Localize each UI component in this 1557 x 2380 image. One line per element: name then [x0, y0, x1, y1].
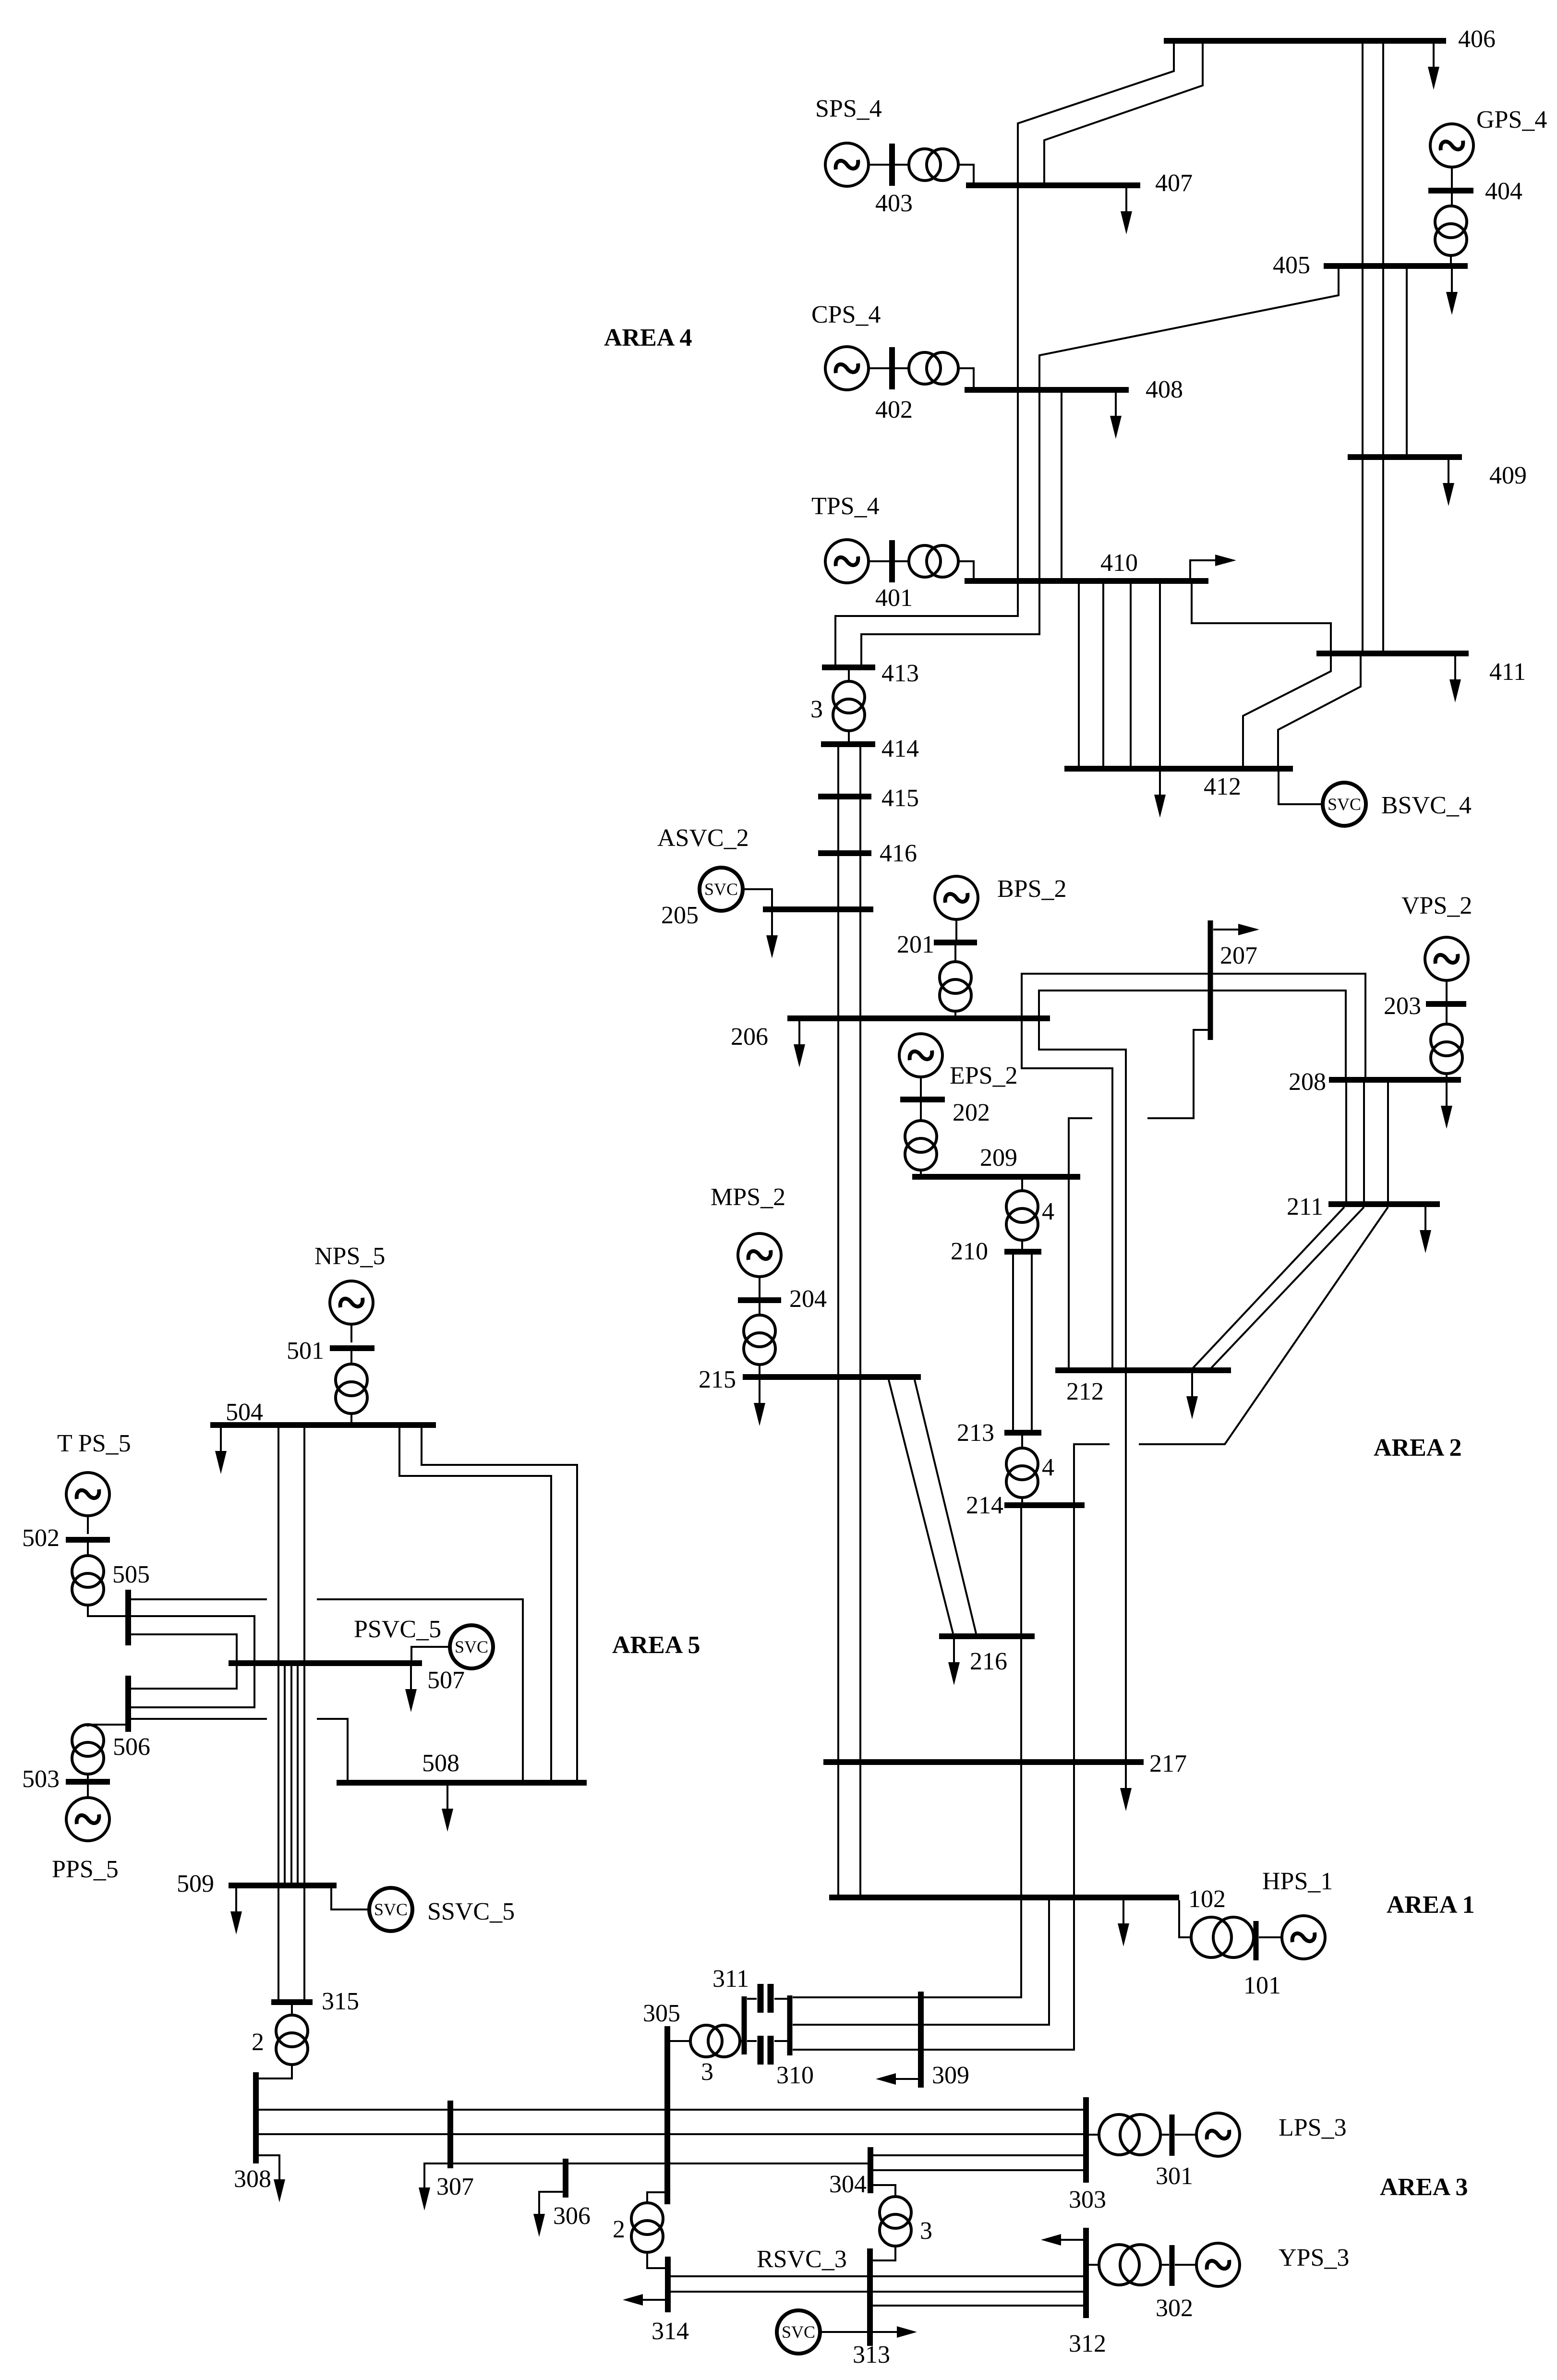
wire 410-412 circuit 3 — [1130, 584, 1132, 767]
export arrow bus 207 — [1213, 924, 1259, 935]
bus 412 — [1064, 766, 1293, 772]
bus 215 — [743, 1374, 921, 1380]
bus 209 — [912, 1174, 1080, 1180]
wire 504-508 east 1 — [399, 1428, 551, 1780]
svg-text:414: 414 — [881, 735, 919, 762]
load arrow bus 212 — [1186, 1373, 1198, 1419]
svg-text:204: 204 — [789, 1285, 827, 1313]
svg-text:201: 201 — [897, 931, 934, 958]
transformer SPS_4 — [909, 149, 958, 181]
transformer 4 (213-214) — [1006, 1448, 1038, 1498]
wire bus 502 to transformer — [87, 1543, 89, 1556]
svg-text:RSVC_3: RSVC_3 — [757, 2246, 847, 2273]
wire 313-312 row 3 — [873, 2305, 1083, 2307]
svg-text:206: 206 — [731, 1023, 768, 1051]
wire 206-212 — [1022, 1021, 1112, 1368]
wire EPS_2 transformer to bus 209 — [920, 1170, 922, 1174]
bus 310 — [787, 1995, 793, 2055]
load arrow bus 409 — [1443, 460, 1454, 506]
bus 203 — [1426, 1001, 1466, 1007]
svg-text:503: 503 — [22, 1765, 60, 1793]
wire bus 312 to YPS_3 transformer — [1089, 2264, 1099, 2266]
wire transformer 3 to bus 311 — [739, 2040, 742, 2042]
svg-text:GPS_4: GPS_4 — [1476, 106, 1547, 133]
wire transformer 4 to bus 214 — [1021, 1498, 1023, 1502]
wire 505-506 circuit 1 — [131, 1634, 237, 1689]
transformer 3 (304-313) — [880, 2197, 911, 2246]
svg-text:202: 202 — [953, 1099, 990, 1126]
wire VPS_2 transformer to bus 208 — [1446, 1074, 1448, 1078]
bus 507 — [229, 1660, 422, 1666]
bus 406 — [1164, 38, 1446, 44]
generator TPS_4 — [825, 540, 869, 583]
svg-text:408: 408 — [1146, 376, 1183, 403]
svg-text:SVC: SVC — [455, 1637, 488, 1656]
wire 208-211 circuit 3 — [1387, 1083, 1389, 1202]
svg-text:303: 303 — [1069, 2186, 1106, 2213]
svg-text:SSVC_5: SSVC_5 — [427, 1898, 515, 1925]
bus 413 — [822, 664, 875, 670]
wire NPS_5 transformer to bus 504 — [350, 1414, 352, 1422]
wire SPS_4 gen to bus 403 — [869, 164, 889, 166]
wire 505-508 segment 2 — [317, 1599, 523, 1780]
wire 410-412 circuit 2 — [1102, 584, 1104, 767]
svg-text:312: 312 — [1069, 2330, 1106, 2357]
svg-text:308: 308 — [234, 2165, 271, 2193]
bus 409 — [1348, 454, 1462, 460]
wire VPS_2 gen to bus 203 — [1446, 980, 1448, 1001]
load arrow bus 308 — [259, 2155, 285, 2202]
svg-text:301: 301 — [1156, 2163, 1193, 2190]
wire 406-407 circuit 2 — [1044, 41, 1203, 185]
wire bus 302 to YPS_3 gen — [1175, 2264, 1196, 2266]
bus 504 — [210, 1422, 436, 1428]
bus 211 — [1328, 1201, 1440, 1207]
wire CPS_4 transformer to bus 408 — [958, 368, 974, 388]
svg-text:LPS_3: LPS_3 — [1279, 2114, 1347, 2141]
svg-text:TPS_4: TPS_4 — [811, 493, 880, 520]
wire bus 506 to transformer — [88, 1725, 125, 1727]
wire 505-506 circuit 2 — [131, 1616, 254, 1707]
wire 406-405-409-411 line a — [1362, 41, 1364, 653]
bus 414 — [821, 741, 875, 747]
wire 507-509 line 1 — [278, 1666, 279, 1883]
svg-text:4: 4 — [1042, 1454, 1054, 1481]
bus 101 — [1254, 1921, 1259, 1960]
svg-text:311: 311 — [712, 1965, 749, 1993]
svg-text:3: 3 — [701, 2058, 713, 2086]
bus 216 — [939, 1633, 1035, 1639]
load arrow bus 102 — [1118, 1900, 1129, 1946]
svg-text:AREA 5: AREA 5 — [612, 1631, 700, 1659]
bus 102 — [829, 1895, 1179, 1900]
wire bus 305 to transformer 2 — [647, 2192, 664, 2203]
svg-text:3: 3 — [920, 2217, 932, 2245]
wire bus 305 to transformer 3 — [670, 2040, 691, 2042]
wire RSVC_3 to bus 313 — [821, 2331, 867, 2333]
svg-text:208: 208 — [1289, 1068, 1326, 1096]
wire GPS_4 transformer to bus 405 — [1450, 255, 1452, 264]
svg-text:214: 214 — [966, 1492, 1003, 1519]
svg-text:PPS_5: PPS_5 — [52, 1856, 119, 1883]
bus 401 — [889, 540, 895, 582]
transformer 3 (413-414) — [833, 681, 865, 731]
transformer EPS_2 — [905, 1121, 937, 1170]
transformer 2 (315-308) — [276, 2015, 308, 2065]
svg-text:304: 304 — [829, 2171, 867, 2198]
bus 408 — [965, 387, 1129, 393]
svg-text:VPS_2: VPS_2 — [1401, 892, 1472, 919]
load arrow bus 307 — [419, 2163, 447, 2211]
bus 313 — [867, 2248, 873, 2346]
svg-text:210: 210 — [951, 1238, 988, 1265]
svg-text:PSVC_5: PSVC_5 — [354, 1616, 441, 1643]
SVC ASVC_2 — [700, 868, 743, 911]
bus 405 — [1324, 263, 1468, 269]
wire 314-313-312 row 1 — [671, 2275, 1083, 2277]
svg-text:101: 101 — [1243, 1972, 1281, 1999]
svg-text:502: 502 — [22, 1524, 60, 1552]
svg-text:501: 501 — [287, 1337, 324, 1365]
wire BPS_2 transformer to bus 206 — [954, 1011, 956, 1015]
bus 315 — [271, 1999, 313, 2005]
export arrow bus 309 — [876, 2073, 918, 2085]
generator PPS_5 — [66, 1798, 109, 1841]
wire TPS_5 gen to bus 502 — [87, 1516, 89, 1534]
bus 307 — [447, 2101, 453, 2168]
export arrow bus 313 — [873, 2326, 917, 2338]
bus 502 — [66, 1537, 110, 1543]
load arrow bus 215 — [754, 1380, 765, 1426]
wire 206-212-217 — [1039, 1021, 1126, 1760]
bus 213 — [1004, 1430, 1041, 1436]
bus 303 — [1083, 2097, 1089, 2183]
SVC SSVC_5 — [369, 1888, 412, 1931]
svg-text:409: 409 — [1489, 462, 1527, 489]
transformer NPS_5 — [336, 1364, 367, 1414]
wire bus 404 to transformer — [1451, 193, 1453, 206]
transformer BPS_2 — [940, 962, 971, 1011]
load arrow bus 412 — [1154, 772, 1166, 818]
svg-text:2: 2 — [613, 2216, 625, 2243]
svg-text:2: 2 — [252, 2029, 264, 2056]
bus 404 — [1428, 188, 1473, 193]
svg-text:403: 403 — [875, 190, 913, 217]
wire bus 413 to transformer 3 — [848, 670, 850, 682]
wire GPS_4 gen to bus 404 — [1451, 167, 1453, 188]
wire 507-509 line 4 — [297, 1666, 299, 1883]
wire transformer to bus 505 — [88, 1605, 125, 1616]
wire bus 403 to transformer — [895, 164, 909, 166]
svg-text:410: 410 — [1100, 549, 1138, 577]
svg-text:HPS_1: HPS_1 — [1262, 1868, 1333, 1895]
wire 208-211 circuit 1 — [1345, 1083, 1347, 1202]
wire 509-315 line a — [278, 1888, 279, 1999]
wire bus 102 to HPS_1 transformer — [1179, 1900, 1191, 1937]
wire bus 201 to transformer — [954, 945, 956, 962]
generator NPS_5 — [330, 1281, 373, 1324]
wire 207-209-212 segment 1 — [1147, 1030, 1208, 1118]
transformer CPS_4 — [909, 352, 958, 384]
svg-text:406: 406 — [1458, 25, 1496, 53]
transformer YPS_3 — [1099, 2245, 1160, 2285]
bus 201 — [934, 940, 977, 945]
svg-text:YPS_3: YPS_3 — [1279, 2244, 1349, 2271]
bus 202 — [900, 1097, 945, 1102]
wire 211-214-217-102 diagonal — [1139, 1207, 1388, 1444]
wire bus 204 to transformer — [759, 1303, 760, 1316]
svg-text:415: 415 — [881, 785, 919, 812]
svg-text:SVC: SVC — [782, 2322, 815, 2342]
load arrow bus 217 — [1120, 1765, 1132, 1811]
load arrow bus 411 — [1449, 656, 1461, 702]
svg-text:213: 213 — [957, 1419, 994, 1447]
svg-text:413: 413 — [881, 660, 919, 687]
wire bus 301 to LPS_3 gen — [1175, 2134, 1196, 2136]
bus 301 — [1170, 2114, 1175, 2156]
svg-text:505: 505 — [112, 1561, 150, 1588]
svg-text:BPS_2: BPS_2 — [997, 875, 1067, 903]
bus 416 — [818, 850, 871, 856]
wire bus 402 to transformer — [895, 367, 909, 369]
transformer 505 (502-505) — [72, 1556, 104, 1605]
generator BPS_2 — [935, 876, 978, 919]
bus 206 — [787, 1015, 1050, 1021]
svg-text:AREA 3: AREA 3 — [1380, 2174, 1468, 2201]
wire bus 202 to transformer — [920, 1102, 922, 1121]
svg-text:309: 309 — [932, 2062, 969, 2089]
bus 505 — [125, 1590, 131, 1645]
transformer LPS_3 — [1099, 2114, 1160, 2155]
bus 204 — [738, 1297, 781, 1303]
transformer HPS_1 — [1191, 1917, 1254, 1957]
wire 102-309-310 row 2 — [793, 1900, 1049, 2025]
wire 215-216 circuit 1 — [889, 1380, 953, 1633]
wire 405-408-410-413 — [861, 269, 1339, 665]
load arrow bus 507 — [405, 1666, 417, 1712]
wire 210-213 circuit 1 — [1012, 1255, 1014, 1430]
bus 207 — [1208, 920, 1213, 1040]
load arrow bus 408 — [1110, 393, 1122, 439]
load arrow bus 405 — [1446, 269, 1458, 315]
wire 206-207-208 circuit 2 — [1039, 991, 1346, 1078]
bus 508 — [337, 1780, 587, 1786]
svg-text:306: 306 — [553, 2202, 591, 2230]
SVC BSVC_4 — [1323, 783, 1366, 826]
transformer MPS_2 — [744, 1315, 775, 1365]
wire 405-409 — [1406, 269, 1408, 455]
svg-text:CPS_4: CPS_4 — [811, 301, 881, 328]
wire 504-508 east 2 — [422, 1428, 577, 1780]
wire bus 503 to PPS_5 gen — [87, 1785, 89, 1798]
wire transformer 4 to bus 210 — [1021, 1240, 1023, 1249]
svg-text:507: 507 — [427, 1667, 465, 1694]
wire 412 to BSVC_4 — [1279, 772, 1322, 804]
svg-text:NPS_5: NPS_5 — [314, 1243, 385, 1270]
svg-text:315: 315 — [322, 1988, 359, 2015]
svg-text:211: 211 — [1287, 1193, 1323, 1220]
bus 503 — [66, 1779, 110, 1785]
wire 505-508 segment 1 — [131, 1598, 267, 1600]
wire 504-507 line b — [303, 1428, 305, 1660]
wire 406-405-409-411 line b — [1382, 41, 1384, 653]
wire 411-412 circuit 1 — [1243, 656, 1331, 767]
bus 415 — [818, 794, 871, 799]
wire 215-216 circuit 2 — [915, 1380, 976, 1633]
wire YPS_3 transformer to bus 302 — [1160, 2264, 1169, 2266]
bus 208 — [1329, 1077, 1461, 1083]
wire 407-408-410-413 — [835, 185, 1018, 665]
svg-text:SVC: SVC — [704, 880, 738, 899]
load arrow bus 508 — [442, 1786, 453, 1832]
bus 304 — [868, 2147, 873, 2193]
generator HPS_1 — [1282, 1916, 1325, 1959]
wire ASVC_2 to bus 205 — [743, 889, 772, 906]
transformer TPS_4 — [909, 545, 958, 577]
wire bus 303 to LPS_3 transformer — [1089, 2134, 1099, 2136]
wire 102-309-310 row 1 — [793, 1900, 1021, 1997]
bus 501 — [330, 1345, 374, 1351]
wire 411-412 circuit 2 — [1278, 656, 1361, 767]
wire 210-213 circuit 2 — [1031, 1255, 1033, 1430]
load arrow bus 206 — [794, 1021, 805, 1067]
wire MPS_2 transformer to bus 215 — [759, 1365, 760, 1374]
generator VPS_2 — [1425, 937, 1468, 980]
wire 509-315 line b — [303, 1888, 305, 1999]
svg-text:BSVC_4: BSVC_4 — [1381, 792, 1472, 819]
wire 408-410 — [1061, 393, 1062, 578]
svg-text:SVC: SVC — [374, 1900, 408, 1919]
svg-text:310: 310 — [776, 2062, 814, 2089]
wire BPS_2 gen to bus 201 — [955, 919, 957, 940]
svg-text:305: 305 — [643, 2000, 680, 2027]
wire bus 501 to transformer — [350, 1351, 352, 1365]
wire TPS_4 gen to bus 401 — [869, 560, 889, 562]
svg-text:T PS_5: T PS_5 — [57, 1430, 131, 1457]
svg-text:506: 506 — [113, 1733, 150, 1761]
bus 410 — [965, 578, 1208, 584]
export arrow bus 312 — [1041, 2234, 1083, 2246]
load arrow bus 504 — [215, 1428, 227, 1474]
wire bus 213 to transformer 4 — [1021, 1436, 1023, 1448]
transformer 506 (506-503) — [72, 1725, 104, 1774]
svg-text:212: 212 — [1066, 1378, 1104, 1405]
svg-text:407: 407 — [1155, 169, 1193, 197]
generator CPS_4 — [825, 347, 869, 390]
svg-text:MPS_2: MPS_2 — [711, 1184, 785, 1211]
wire LPS_3 transformer to bus 301 — [1160, 2134, 1169, 2136]
bus 305 — [664, 2026, 670, 2204]
wire bus 401 to transformer — [895, 560, 909, 562]
wire NPS_5 gen to bus 501 — [350, 1324, 352, 1342]
generator GPS_4 — [1430, 124, 1473, 167]
wire 211-212 circuit 2 — [1211, 1207, 1364, 1368]
wire bus 101 to HPS_1 gen — [1259, 1936, 1281, 1938]
wire 102-309-310 row 3 — [793, 1900, 1074, 2050]
bus 308 — [253, 2072, 259, 2163]
wire 307-306-304 row 3 — [453, 2163, 868, 2164]
wire bus 315 to transformer 2 — [291, 2005, 293, 2015]
transformer 4 (209-210) — [1006, 1191, 1038, 1240]
bus 210 — [1004, 1249, 1041, 1255]
svg-text:205: 205 — [661, 902, 699, 929]
wire 410-411 — [1192, 584, 1331, 652]
series capacitor bottom (311-310) — [747, 2036, 787, 2065]
transformer VPS_2 — [1431, 1024, 1462, 1074]
transformer GPS_4 — [1435, 206, 1467, 255]
wire 308-303 row 2 — [259, 2133, 1083, 2135]
load arrow bus 211 — [1420, 1207, 1431, 1253]
wire 208-211 circuit 2 — [1363, 1083, 1365, 1202]
load arrow bus 406 — [1428, 44, 1439, 90]
svg-text:402: 402 — [875, 396, 913, 423]
svg-text:307: 307 — [436, 2173, 474, 2200]
wire bus 209 to transformer 4 — [1021, 1180, 1023, 1191]
wire 314-313-312 row 2 — [671, 2291, 1083, 2293]
wire 207-209-212 segment 2 — [1069, 1118, 1092, 1368]
wire 507-509 line 3 — [290, 1666, 292, 1883]
series capacitor top (311-310) — [747, 1984, 787, 2013]
svg-text:EPS_2: EPS_2 — [950, 1062, 1018, 1089]
wire 504-507 line a — [278, 1428, 279, 1660]
wire 214-216-217-102 — [1020, 1508, 1022, 1895]
bus 402 — [889, 347, 895, 389]
generator LPS_3 — [1196, 2113, 1240, 2156]
export arrow bus 314 — [623, 2294, 665, 2306]
svg-text:508: 508 — [422, 1750, 459, 1777]
wire TPS_4 transformer to bus 410 — [958, 561, 974, 579]
wire bus 203 to transformer — [1446, 1007, 1448, 1024]
svg-text:313: 313 — [853, 2341, 890, 2368]
wire 406-407 circuit 1 — [1018, 41, 1174, 185]
load arrow bus 407 — [1121, 188, 1132, 234]
wire transformer 2 to bus 314 — [647, 2252, 665, 2268]
wire 414-205-206-215-217-102 line b — [859, 747, 861, 1895]
export arrow bus 410 — [1190, 555, 1236, 579]
svg-text:ASVC_2: ASVC_2 — [657, 824, 749, 852]
bus 311 — [742, 1996, 747, 2054]
bus 506 — [125, 1676, 131, 1732]
wire 509 to SSVC_5 — [331, 1888, 369, 1909]
wire 410-412 circuit 4 — [1159, 584, 1161, 767]
load arrow bus 509 — [230, 1888, 242, 1934]
generator TPS_5 — [66, 1473, 109, 1516]
wire transformer to bus 503 — [87, 1774, 89, 1779]
wire transformer 2 to bus 308 — [259, 2065, 292, 2078]
svg-text:4: 4 — [1042, 1198, 1054, 1225]
svg-text:412: 412 — [1204, 773, 1241, 800]
bus 302 — [1170, 2245, 1175, 2286]
svg-text:SPS_4: SPS_4 — [815, 95, 882, 122]
generator SPS_4 — [825, 143, 869, 186]
wire 206-207-208 circuit 1 — [1022, 974, 1365, 1078]
svg-text:SVC: SVC — [1328, 795, 1361, 814]
wire EPS_2 gen to bus 202 — [920, 1077, 922, 1097]
bus 411 — [1316, 651, 1469, 656]
svg-text:217: 217 — [1149, 1750, 1187, 1777]
SVC RSVC_3 — [777, 2310, 820, 2354]
wire SPS_4 transformer to bus 407 — [958, 165, 974, 183]
wire CPS_4 gen to bus 402 — [869, 367, 889, 369]
generator EPS_2 — [899, 1034, 942, 1077]
svg-text:504: 504 — [226, 1399, 263, 1426]
bus 509 — [229, 1883, 337, 1888]
transformer 3 (305-310) — [690, 2025, 740, 2057]
svg-text:416: 416 — [880, 840, 917, 867]
load arrow bus 306 — [533, 2192, 563, 2237]
svg-text:102: 102 — [1188, 1885, 1226, 1913]
load arrow bus 216 — [948, 1639, 960, 1685]
